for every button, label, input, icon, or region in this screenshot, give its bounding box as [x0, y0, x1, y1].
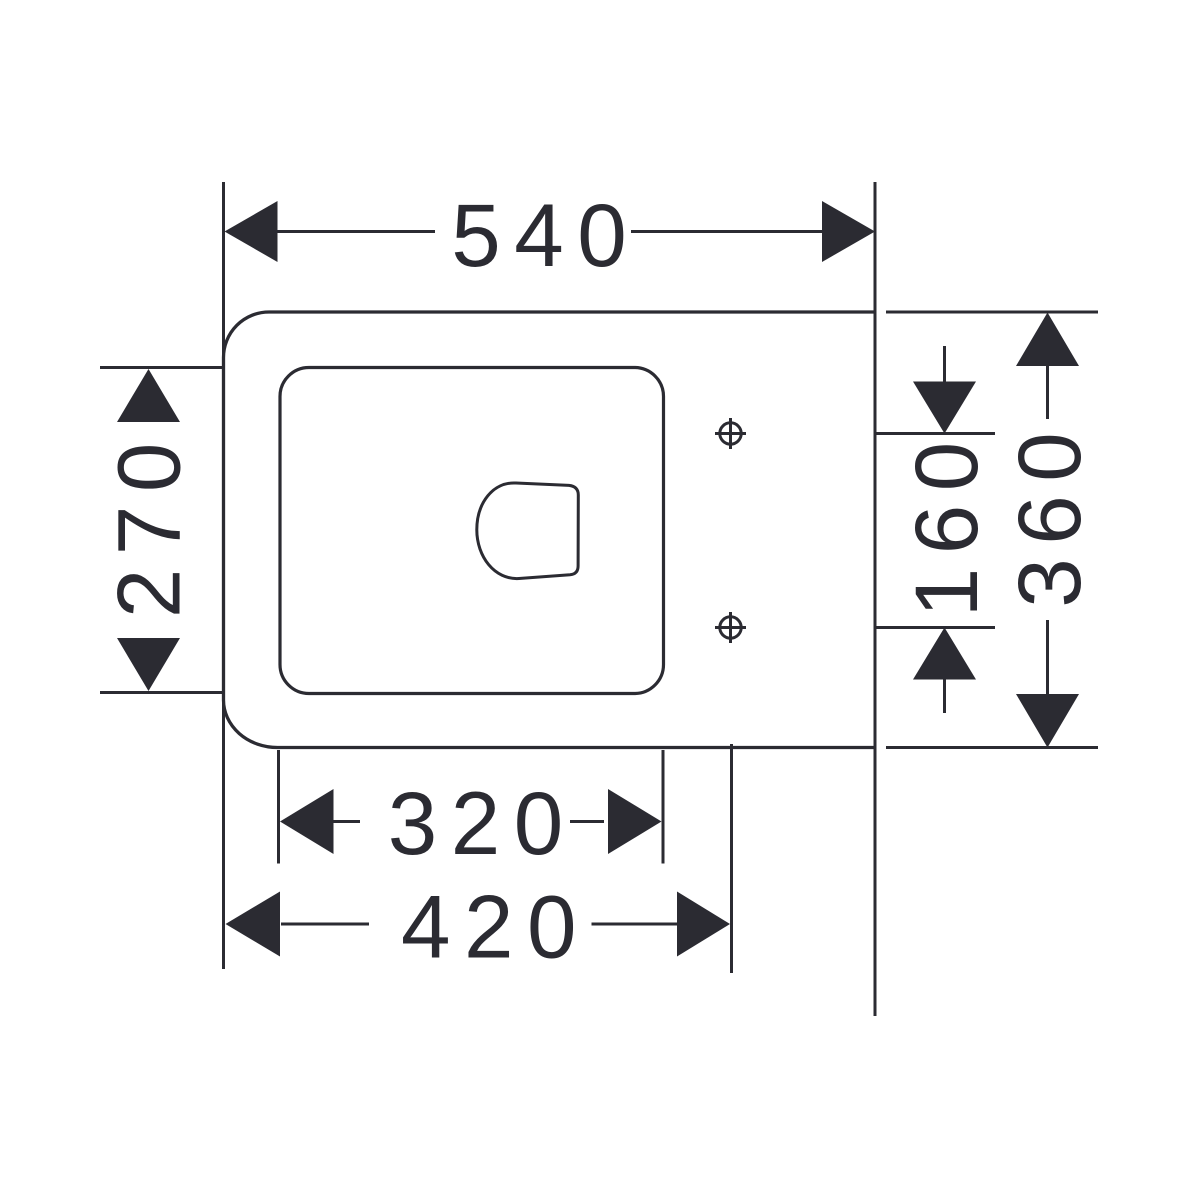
svg-text:270: 270: [98, 429, 198, 618]
svg-text:540: 540: [451, 185, 640, 285]
svg-text:420: 420: [401, 877, 590, 977]
svg-text:320: 320: [388, 773, 577, 873]
svg-text:160: 160: [896, 428, 996, 617]
svg-text:360: 360: [999, 419, 1099, 608]
